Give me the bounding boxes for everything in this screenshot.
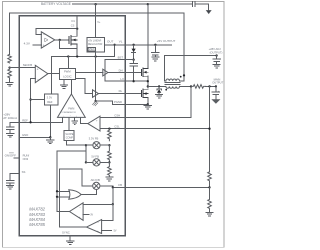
svg-text:V5EN: V5EN: [89, 49, 95, 51]
svg-text:SS: SS: [22, 170, 26, 174]
svg-text:5V: 5V: [114, 230, 117, 233]
wire FB comparator drop: [112, 187, 114, 204]
wire DL pin line: [99, 93, 142, 95]
wire logic out DH: [76, 71, 103, 73]
capacitor C3 28V out: [213, 56, 221, 65]
svg-text:ON3: ON3: [23, 157, 29, 161]
wire SECFB bus drop: [51, 57, 53, 95]
svg-text:PWM: PWM: [68, 108, 74, 111]
node phase dot secondary: [180, 76, 182, 78]
wire or input 1: [57, 190, 70, 192]
wire secondary left to 28V: [164, 56, 216, 81]
node junction comp A input: [112, 203, 114, 205]
resistor R8 FB lower: [208, 187, 212, 208]
node junction U1 output: [59, 39, 61, 41]
wire DH driver supply rail: [104, 60, 106, 81]
wire or input 2: [57, 196, 70, 198]
wire PGND jog to pin: [96, 101, 148, 104]
regulator block U2: [87, 37, 105, 52]
transistor Q3 low side: [141, 89, 148, 98]
svg-text:PWM: PWM: [64, 70, 71, 74]
diode D2 schottky: [157, 86, 161, 90]
node junction FB: [112, 186, 114, 188]
wire comp B top input: [102, 204, 113, 220]
node junction VL cap: [154, 44, 156, 46]
ground power stage: [144, 104, 151, 109]
mux M3 ADJ FB: [93, 182, 100, 189]
wire 5V tap: [100, 161, 109, 163]
wire U5 input REF: [61, 117, 63, 122]
node junction schottky: [158, 85, 160, 87]
wire 4.3V to + input: [33, 44, 42, 46]
svg-text:GND: GND: [22, 133, 28, 137]
node junction CSL ext: [208, 128, 210, 130]
node junction mux1: [85, 144, 87, 146]
capacitor battery bypass C1: [192, 2, 208, 11]
wire REF pin internal: [19, 121, 62, 123]
wire Q3 source to ground: [147, 97, 149, 104]
node junction sense left: [190, 85, 192, 87]
wire SECFB tap to pin: [10, 67, 36, 69]
svg-text:3.3V: 3.3V: [47, 96, 53, 100]
svg-text:4.3V: 4.3V: [24, 41, 31, 45]
node junction PGND: [94, 100, 96, 102]
ground GND pin: [47, 137, 54, 143]
svg-text:OUTPUT: OUTPUT: [212, 81, 223, 85]
wire U3 output to logic: [48, 73, 60, 75]
wire BST pin line: [105, 59, 134, 61]
svg-text:VL: VL: [119, 40, 123, 44]
PWM comparator U5: [58, 94, 86, 117]
wire U1 output down: [60, 40, 77, 49]
slope comp block U6: [64, 131, 74, 141]
svg-text:CSL: CSL: [114, 125, 120, 129]
wire bus corner to VL out: [114, 45, 116, 57]
svg-text:−: −: [97, 221, 99, 225]
svg-text:+: +: [79, 215, 81, 219]
ground SS cap: [7, 185, 14, 189]
wire mux select bus: [85, 145, 87, 162]
wire VL bus: [52, 56, 115, 58]
wire battery to Q2 drain: [147, 4, 149, 68]
wire Q2 source to LX: [147, 76, 149, 88]
svg-text:PGND: PGND: [114, 100, 122, 104]
node junction REF line: [29, 121, 31, 123]
node junction PGND ext: [147, 103, 149, 105]
node junction FB tap: [208, 186, 210, 188]
svg-text:+: +: [97, 229, 99, 233]
svg-text:SECFB: SECFB: [23, 63, 32, 67]
wire primary right: [180, 85, 192, 87]
transformer T1 primary: [166, 86, 180, 88]
svg-text:3V: 3V: [90, 214, 93, 217]
ground logic: [60, 80, 67, 89]
svg-text:LX: LX: [120, 77, 124, 81]
wire ON/OFF to SHDN pin: [14, 157, 19, 159]
svg-text:SLOPE: SLOPE: [65, 133, 73, 136]
mux M1 3.3V FB: [93, 142, 100, 149]
wire LX to transformer: [148, 85, 166, 87]
comparator U9: [87, 220, 102, 234]
svg-text:DL: DL: [119, 89, 123, 93]
svg-text:REF: REF: [47, 100, 53, 104]
wire +28V sense line top: [10, 12, 184, 14]
comparator U8: [70, 203, 84, 221]
node junction out cap: [215, 85, 217, 87]
svg-text:MAX785: MAX785: [29, 222, 45, 227]
transistor Q2 high side: [141, 68, 148, 77]
svg-text:CSH: CSH: [114, 113, 120, 117]
wire U1 feedback: [36, 29, 77, 35]
svg-text:LOGIC: LOGIC: [63, 75, 71, 79]
svg-text:+5V LINEAR: +5V LINEAR: [88, 40, 102, 43]
wire comp A top input: [83, 203, 113, 205]
ground VL cap: [152, 57, 159, 61]
node junction V+ rail on bus: [94, 55, 96, 57]
wire REF box ground stub: [49, 105, 51, 138]
wire logic top feed: [67, 57, 69, 69]
node junction secondary sense: [183, 74, 185, 76]
node junction 28V out: [215, 54, 217, 56]
wire CSL line: [100, 128, 210, 130]
svg-text:REF: REF: [22, 118, 28, 122]
transformer T1 core: [165, 82, 180, 84]
node junction 3.3V tap: [108, 144, 110, 146]
wire U5 apex to logic: [70, 80, 72, 95]
wire comp A bottom stub: [83, 213, 89, 215]
wire mux2 left: [86, 161, 93, 163]
wire output rail: [206, 85, 216, 87]
node junction mux2: [85, 161, 87, 163]
svg-text:FB: FB: [118, 183, 122, 187]
node junction boot cap LX: [132, 80, 134, 82]
node phase dot primary: [165, 89, 167, 91]
node junction LX rail: [147, 85, 149, 87]
svg-text:−: −: [79, 205, 81, 209]
svg-text:+5V OUTPUT: +5V OUTPUT: [157, 39, 176, 43]
transformer T1 secondary: [166, 79, 180, 81]
wire comp A select loop: [57, 151, 86, 211]
wire U1 output to gate: [55, 39, 69, 41]
node junction SECFB tap: [8, 66, 10, 68]
or gate G1: [69, 190, 81, 199]
node junction boot diode anode: [132, 44, 134, 46]
capacitor C4 output: [212, 86, 220, 99]
resistor R5 chain lower: [108, 162, 112, 176]
node junction 5V tap: [108, 161, 110, 163]
wire logic out DL: [76, 78, 93, 93]
svg-text:3.3V FB: 3.3V FB: [89, 136, 99, 140]
wire 3.3V tap: [100, 144, 109, 146]
driver A2 low side: [93, 90, 99, 98]
svg-text:BATTERY VOLTAGE: BATTERY VOLTAGE: [41, 2, 71, 6]
wire left divider drop: [9, 13, 11, 54]
ground internal hatch: [93, 102, 98, 106]
wire LX pin line: [105, 80, 148, 82]
ground left divider: [6, 79, 13, 86]
node junction or1: [56, 190, 58, 192]
node junction Q5 drain: [76, 28, 78, 30]
node junction FB divider top: [208, 85, 210, 87]
node junction pass FET source on bus: [76, 55, 78, 57]
node junction Q1 drain feed: [147, 3, 149, 5]
capacitor C2 bootstrap: [130, 60, 138, 81]
svg-text:OUT: OUT: [107, 40, 114, 44]
svg-text:(OUTPUT): (OUTPUT): [210, 50, 223, 54]
ground 28V cap: [213, 64, 220, 68]
op-amp U1 linear regulator error amp: [41, 32, 55, 48]
IC outline MAX782: [19, 16, 125, 236]
wire secondary feedback drop: [183, 13, 185, 75]
resistor R3 chain upper: [108, 129, 112, 141]
svg-text:+: +: [96, 119, 98, 122]
resistor R1 secondary divider upper: [8, 54, 12, 63]
node junction VL out: [113, 44, 115, 46]
wire U3 minus to REF: [31, 79, 36, 123]
node junction LX: [147, 80, 149, 82]
driver A1 high side: [103, 69, 108, 76]
svg-text:−: −: [43, 33, 45, 37]
svg-text:−: −: [37, 77, 39, 81]
svg-text:+: +: [37, 68, 39, 72]
node junction GND: [49, 136, 51, 138]
wire U5 input slope: [68, 117, 70, 130]
ground FB divider: [206, 209, 213, 216]
wire U5 input csa: [81, 117, 88, 123]
wire Q5 drain stub to V+: [76, 17, 78, 29]
svg-text:+: +: [43, 44, 45, 48]
ground U5 input: [72, 117, 78, 124]
wire REF box left: [31, 99, 45, 101]
wire mux1 left: [86, 144, 93, 146]
capacitor VL bypass: [152, 45, 160, 57]
transistor Q5 linear pass FET: [76, 29, 78, 57]
svg-text:SYNC: SYNC: [62, 230, 70, 234]
resistor R7 FB upper: [208, 172, 212, 187]
node junction V+ feed: [94, 3, 96, 5]
ground battery bypass: [206, 10, 211, 13]
wire SS pin external: [10, 173, 19, 180]
wire slope to mux line: [67, 141, 86, 146]
svg-text:5V FB: 5V FB: [91, 154, 99, 158]
svg-text:ADJ FB: ADJ FB: [91, 178, 100, 182]
resistor R4 chain middle: [108, 145, 112, 161]
wire CSH line: [100, 87, 191, 118]
diode D1 bootstrap: [133, 45, 135, 49]
wire FB divider vertical: [209, 86, 211, 171]
svg-text:COMPARATOR: COMPARATOR: [61, 111, 76, 114]
resistor R6 current sense: [191, 85, 206, 89]
svg-text:V+: V+: [97, 20, 101, 24]
reference block U4: [45, 94, 59, 105]
wire battery rail: [73, 3, 193, 5]
node junction or2: [56, 196, 58, 198]
node junction chain top: [108, 128, 110, 130]
wire comp B select loop: [60, 169, 93, 227]
svg-text:ON/OFF: ON/OFF: [5, 154, 16, 158]
capacitor REF bypass: [6, 122, 14, 133]
ground REF cap: [7, 134, 14, 138]
node junction BST: [132, 59, 134, 61]
svg-text:AT 100mA: AT 100mA: [3, 116, 17, 120]
op-amp U3 SECFB comparator: [35, 65, 48, 82]
wire regulator OUT to VL pin: [105, 44, 172, 46]
resistor R2 secondary divider lower: [8, 68, 12, 79]
ground output cap: [213, 100, 220, 103]
current sense amp U7: [88, 116, 100, 131]
wire REF pin external: [10, 121, 19, 123]
PWM logic block: [59, 69, 75, 80]
node junction REF box feed: [29, 98, 31, 100]
ground SYNC: [67, 236, 74, 245]
wire mux3 to FB pin: [100, 186, 210, 188]
svg-text:D1: D1: [72, 19, 76, 23]
wire secondary right up: [180, 75, 185, 81]
svg-text:BST: BST: [118, 55, 124, 59]
wire V+ rail internal: [95, 4, 97, 101]
wire GND pin line: [19, 136, 50, 138]
svg-text:CS: CS: [71, 24, 75, 28]
ground chain: [106, 177, 113, 181]
svg-text:DH: DH: [119, 68, 123, 72]
svg-text:COMP: COMP: [66, 137, 74, 140]
capacitor SS: [7, 181, 15, 186]
border frame: [3, 2, 224, 248]
svg-text:REGULATOR: REGULATOR: [88, 43, 103, 46]
wire DH pin line: [108, 72, 141, 74]
wire or output to mux3: [81, 190, 96, 195]
wire comp B bottom stub: [102, 230, 112, 232]
mux M2 5V FB: [93, 159, 100, 166]
node junction logic feed on bus: [67, 55, 69, 57]
